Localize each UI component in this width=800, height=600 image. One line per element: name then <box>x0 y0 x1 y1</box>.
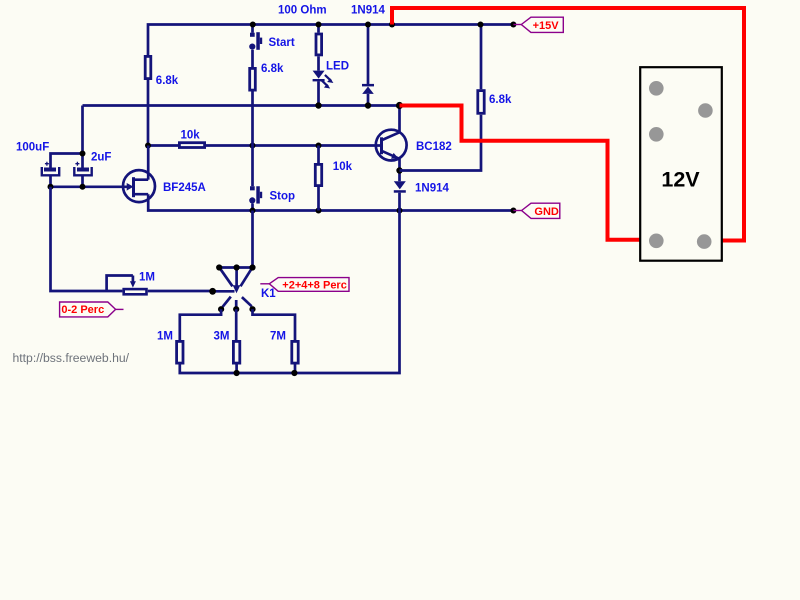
svg-text:100 Ohm: 100 Ohm <box>278 5 327 17</box>
LED D3 <box>313 71 334 89</box>
svg-text:1M: 1M <box>157 331 173 343</box>
svg-text:0-2 Perc: 0-2 Perc <box>61 304 104 316</box>
wire red collector to battery <box>400 106 654 240</box>
node dot 10k at 252.5 <box>250 143 256 149</box>
svg-text:1N914: 1N914 <box>351 5 385 17</box>
flag 0-2 Perc <box>60 302 124 317</box>
wire 2uF top lead <box>81 154 84 168</box>
wire LED to y105 line <box>317 81 320 105</box>
node dot rail red <box>389 22 395 28</box>
svg-text:+15V: +15V <box>533 20 560 32</box>
wire top +15V rail <box>148 25 513 56</box>
switch Stop <box>249 186 262 203</box>
svg-text:BC182: BC182 <box>416 141 452 153</box>
wire k1 to 3M resistor <box>235 309 238 340</box>
wire gate line <box>51 185 129 188</box>
resistor R 10k horizontal <box>179 143 204 148</box>
svg-text:6.8k: 6.8k <box>156 75 179 87</box>
node dot rail 6.8k right <box>478 22 484 28</box>
wire pot to pole <box>148 290 213 293</box>
wire right 6.8k top lead <box>480 25 483 90</box>
node dot emitter 6.8k tap <box>396 167 402 173</box>
resistor R 7M <box>292 341 298 363</box>
wire collector up <box>398 106 401 133</box>
svg-text:3M: 3M <box>214 331 230 343</box>
wire start to 6.8k <box>251 50 254 67</box>
transistor Q2 BC182 <box>376 130 407 161</box>
wire emitter down <box>398 159 401 181</box>
wire 1N914 d1 column top <box>367 25 370 85</box>
diode D1 1N914 top <box>362 84 374 94</box>
capacitor C1 100uF <box>42 162 59 187</box>
wire 10k line y145.5 <box>148 144 382 147</box>
resistor R 1M <box>177 341 183 363</box>
svg-text:+2+4+8 Perc: +2+4+8 Perc <box>282 280 347 292</box>
svg-text:Start: Start <box>269 37 295 49</box>
battery terminal t3 <box>649 127 664 142</box>
svg-text:1M: 1M <box>139 272 155 284</box>
wire GND rail <box>148 194 513 210</box>
resistor R 6.8k left <box>145 56 151 78</box>
potentiometer P1 1M <box>107 276 147 295</box>
battery terminal t4 <box>649 234 664 249</box>
wire left column down <box>51 187 123 291</box>
svg-text:100uF: 100uF <box>16 141 49 153</box>
svg-text:1N914: 1N914 <box>415 183 449 195</box>
node dot rail flag <box>510 22 516 28</box>
flag +15V <box>513 17 563 32</box>
node dot cap tee <box>80 151 86 157</box>
wire 7M bottom <box>294 365 297 374</box>
flag +2+4+8 Perc <box>260 278 349 292</box>
wire stop to gnd rail <box>251 204 254 211</box>
wire red top supply <box>392 8 744 241</box>
wire cap tee left <box>51 154 83 168</box>
wire jfet drain up <box>147 146 150 180</box>
wire d1 to y105 line <box>367 94 370 106</box>
svg-text:6.8k: 6.8k <box>489 94 512 106</box>
resistor R 10k vertical <box>315 164 321 185</box>
svg-text:12V: 12V <box>661 167 700 191</box>
node dot 10k left <box>145 143 151 149</box>
resistor R 6.8k right <box>478 91 484 114</box>
node dot bottom 3M <box>234 370 240 376</box>
wire 6.8k mid down to stop <box>251 92 254 187</box>
wire start column upper <box>251 25 254 33</box>
node dot y105 at 368 <box>365 102 371 108</box>
switch K1 <box>209 211 255 313</box>
svg-text:BF245A: BF245A <box>163 182 206 194</box>
battery terminal t1 <box>649 81 664 96</box>
node dot rail start <box>250 22 256 28</box>
node dot gnd flag <box>510 208 516 214</box>
node dot 10k at 318.5 <box>316 143 322 149</box>
svg-text:http://bss.freeweb.hu/: http://bss.freeweb.hu/ <box>13 351 130 365</box>
switch Start <box>249 32 262 50</box>
battery terminal t5 <box>697 234 712 249</box>
svg-text:2uF: 2uF <box>91 151 111 163</box>
svg-text:10k: 10k <box>333 161 353 173</box>
wire d2 to gnd <box>398 193 401 211</box>
node dot gnd 399 <box>397 208 403 214</box>
node dot rail d1 <box>365 22 371 28</box>
wire 10k vertical bottom lead <box>317 187 320 211</box>
battery 12V box <box>640 67 722 261</box>
wire right 6.8k bottom to emitter node <box>400 115 482 171</box>
wire bottom rail <box>180 211 400 374</box>
wire k1 to 7M resistor <box>253 309 296 340</box>
flag GND <box>513 203 559 218</box>
svg-text:LED: LED <box>326 60 349 72</box>
capacitor C2 2uF <box>74 162 91 187</box>
wire 100ohm to LED <box>317 56 320 70</box>
battery terminal t2 <box>698 103 713 118</box>
svg-text:Stop: Stop <box>270 190 296 202</box>
svg-text:7M: 7M <box>270 331 286 343</box>
node dot bottom 7M <box>291 370 297 376</box>
node dot y105 at 318 <box>315 102 321 108</box>
resistor R 3M <box>233 341 239 363</box>
node dot gate left <box>48 184 54 190</box>
resistor R 6.8k middle <box>250 68 256 90</box>
wire left 6.8k bottom to 10k line <box>147 80 150 146</box>
wire k1 to 1M resistor <box>180 309 221 340</box>
node dot rail 100ohm <box>316 22 322 28</box>
wire cap column vertical <box>81 106 84 154</box>
wire 3M bottom <box>235 365 238 374</box>
svg-text:K1: K1 <box>261 288 276 300</box>
resistor R 100 Ohm <box>316 34 322 55</box>
wire 100ohm column top <box>317 25 320 33</box>
svg-text:GND: GND <box>534 206 559 218</box>
transistor Q1 BF245A <box>123 170 155 202</box>
svg-text:6.8k: 6.8k <box>261 63 284 75</box>
node dot collector red node <box>396 102 403 109</box>
node dot gnd 318 <box>316 208 322 214</box>
svg-text:10k: 10k <box>181 129 201 141</box>
diode D2 1N914 lower <box>394 181 406 193</box>
wire y105 horizontal <box>83 104 400 107</box>
wire 10k vertical top lead <box>317 146 320 164</box>
node dot gate 2uF <box>80 184 86 190</box>
node dot gnd 252 <box>250 208 256 214</box>
